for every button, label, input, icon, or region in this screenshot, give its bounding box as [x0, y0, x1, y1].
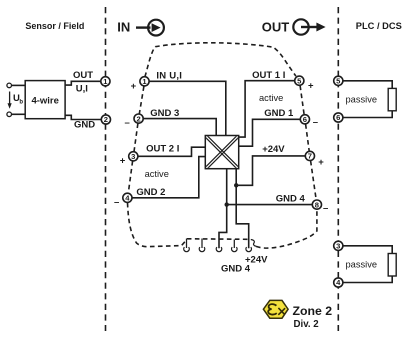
terminal S2: [101, 115, 110, 124]
Ex logo epsilon glyph: [268, 304, 277, 314]
svg-text:passive: passive: [346, 94, 378, 104]
svg-text:6: 6: [336, 113, 340, 122]
svg-text:active: active: [259, 93, 283, 103]
terminal C1: [140, 77, 149, 86]
svg-text:+: +: [318, 157, 324, 168]
ground cup 3: [216, 247, 222, 252]
svg-text:OUT: OUT: [73, 70, 93, 81]
isolation barrier dashed boundary: squiggle at ground bus: [251, 240, 256, 247]
zone separator dashed line (Sensor/Field): [105, 7, 107, 331]
isolation barrier dashed boundary: right column segments: [300, 86, 316, 200]
terminal C5: [295, 76, 304, 85]
svg-text:active: active: [145, 169, 169, 179]
zone separator dashed line (PLC/DCS): [337, 7, 339, 331]
svg-text:–: –: [125, 117, 130, 128]
IN header icon: [136, 20, 164, 36]
svg-text:IN U,I: IN U,I: [156, 70, 182, 81]
terminal P4: [334, 278, 343, 287]
svg-text:passive: passive: [346, 259, 378, 269]
terminal S1: [101, 77, 110, 86]
wire: +24V terminal 7 branch: [236, 156, 305, 185]
wire: isolator bottom right to ground cup 5: [236, 169, 249, 249]
svg-text:b: b: [19, 100, 23, 106]
wire: sensor + terminal to 4-wire box: [12, 84, 26, 86]
load resistor R1: [388, 88, 396, 110]
wire: GND 2 terminal 4 to isolator: [132, 157, 205, 198]
wire: GND 3 terminal 2 to isolator: [143, 119, 216, 136]
svg-text:2: 2: [104, 115, 108, 124]
svg-text:4-wire: 4-wire: [31, 95, 58, 106]
terminal P6: [334, 113, 343, 122]
isolation barrier dashed boundary: bottom-left curve: [128, 203, 251, 247]
wire: GND 4 terminal 8 branch: [227, 204, 313, 206]
svg-text:OUT 1 I: OUT 1 I: [252, 70, 285, 81]
OUT header icon: [293, 19, 325, 34]
wire: IN U,I terminal 1 to isolator: [149, 81, 226, 135]
terminal C4: [123, 193, 132, 202]
svg-text:GND 4: GND 4: [221, 264, 251, 275]
svg-text:GND 3: GND 3: [150, 108, 179, 119]
svg-text:PLC / DCS: PLC / DCS: [356, 21, 402, 31]
svg-text:GND 4: GND 4: [276, 193, 306, 204]
isolation barrier dashed boundary: top edge: [145, 43, 296, 77]
wire: 4-wire box OUT to terminal 1: [65, 81, 101, 85]
svg-text:+: +: [308, 81, 314, 92]
svg-text:8: 8: [315, 200, 319, 209]
terminal C2: [134, 114, 143, 123]
ground cup 5: [246, 247, 251, 252]
wire: sensor - terminal to 4-wire box: [12, 113, 26, 115]
wire: OUT 2 I terminal 3 to isolator: [138, 147, 205, 156]
terminal C3: [129, 152, 138, 161]
ground cup 2: [199, 239, 205, 252]
isolation barrier dashed boundary: left column segments: [128, 86, 144, 193]
Ex logo x glyph: [278, 308, 285, 315]
svg-text:3: 3: [336, 242, 340, 251]
svg-text:GND 1: GND 1: [264, 108, 294, 119]
svg-text:IN: IN: [117, 20, 130, 35]
svg-text:+24V: +24V: [262, 144, 285, 155]
sensor supply open terminal +: [7, 83, 12, 88]
wire: GND 1 terminal 6 to isolator: [239, 119, 301, 146]
4-wire transmitter box: [25, 81, 65, 119]
svg-text:6: 6: [303, 115, 307, 124]
svg-text:–: –: [323, 203, 328, 214]
ground cup 4: [232, 240, 238, 252]
terminal P3: [334, 241, 343, 250]
terminal P5: [334, 76, 343, 85]
svg-text:2: 2: [136, 114, 140, 123]
Ub supply arrow: [9, 92, 11, 105]
svg-text:Sensor / Field: Sensor / Field: [25, 21, 84, 31]
svg-text:7: 7: [308, 152, 312, 161]
junction dot GND 4: [225, 202, 229, 206]
sensor supply open terminal -: [7, 112, 12, 117]
svg-text:+: +: [131, 81, 137, 92]
svg-text:+: +: [120, 156, 126, 167]
wire: OUT 1 I terminal 5 to isolator: [239, 81, 295, 137]
svg-text:–: –: [313, 117, 318, 128]
terminal C8: [312, 200, 321, 209]
svg-text:Zone 2: Zone 2: [293, 304, 333, 318]
svg-text:3: 3: [131, 152, 135, 161]
svg-text:GND: GND: [74, 120, 95, 131]
svg-text:U,I: U,I: [76, 83, 88, 94]
ground cup 1: [184, 239, 189, 252]
wire: 4-wire box GND to terminal 2: [65, 115, 101, 119]
svg-text:OUT 2 I: OUT 2 I: [146, 144, 179, 155]
wire: isolator bottom left to ground cup 3: [219, 169, 227, 249]
terminal C6: [300, 115, 309, 124]
junction dot +24V: [234, 183, 238, 187]
isolation barrier dashed boundary: bottom-right curve: [256, 210, 317, 249]
svg-text:OUT: OUT: [262, 20, 290, 35]
svg-text:–: –: [114, 197, 119, 208]
PLC loop 2 wiring: [343, 246, 392, 283]
svg-text:Div. 2: Div. 2: [294, 319, 319, 330]
svg-text:GND 2: GND 2: [136, 187, 165, 198]
Ex hexagon logo: [263, 300, 288, 318]
PLC loop 1 wiring: [343, 81, 392, 118]
load resistor R2: [388, 254, 396, 277]
terminal C7: [305, 151, 314, 160]
